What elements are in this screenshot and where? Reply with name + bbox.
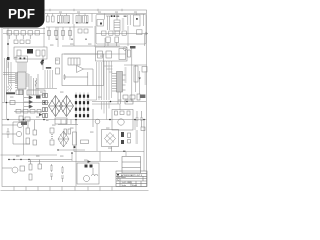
svg-text:Scale: Scale [122,185,127,187]
svg-text:No: No [117,177,119,179]
svg-text:Name: Name [121,177,126,179]
svg-text:1-02-1985: 1-02-1985 [122,182,133,184]
svg-text:PDF: PDF [8,7,35,22]
svg-text:Sheet: Sheet [132,184,137,187]
